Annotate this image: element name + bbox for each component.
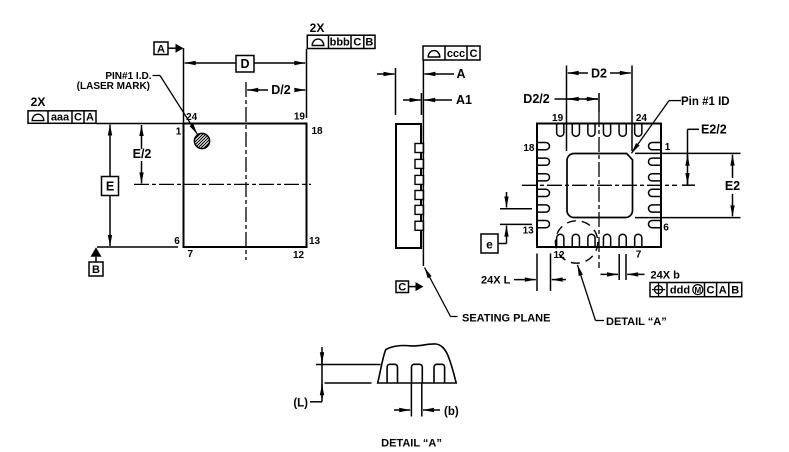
dimension (b) arrow right (423, 409, 440, 411)
dimension D right extension line (306, 49, 308, 118)
pin number 24 (bottom view) (636, 113, 648, 124)
fcf aaa symbol (32, 114, 44, 120)
svg-text:7: 7 (188, 249, 194, 260)
svg-text:E2/2: E2/2 (701, 123, 727, 137)
pin 1 laser mark (192, 122, 212, 160)
dimension b arrow left (601, 273, 619, 275)
pin number 13 (top view) (309, 236, 321, 247)
dimension L arrow left (514, 279, 536, 281)
svg-text:6: 6 (663, 222, 669, 233)
dimension A line right (424, 73, 454, 75)
datum A leader (168, 47, 176, 49)
dimension (L) arrow up (321, 384, 323, 398)
pin number 7 (bottom view) (636, 250, 642, 261)
pin #1 id leader (632, 101, 682, 154)
svg-text:bbb: bbb (330, 37, 350, 49)
pin number 18 (bottom view) (523, 143, 535, 154)
top view vertical centerline (245, 82, 247, 260)
top view horizontal centerline (134, 183, 311, 185)
fcf ddd position symbol (652, 283, 665, 296)
pin number 6 (top view) (174, 236, 180, 247)
svg-text:e: e (486, 238, 493, 252)
datum B box (89, 262, 103, 276)
dimension (b) arrow left (394, 409, 410, 411)
svg-text:2X: 2X (310, 21, 325, 35)
dimension D2 line right (610, 72, 631, 74)
svg-text:18: 18 (523, 143, 535, 154)
dimension D/2 label (271, 83, 291, 97)
bottom view left edge pins (537, 143, 550, 228)
fcf bbb frame (307, 35, 375, 48)
svg-text:Pin #1 ID: Pin #1 ID (681, 96, 730, 108)
fcf ccc text (447, 48, 465, 60)
seating plane label (462, 313, 550, 325)
dimension D left extension line (183, 48, 185, 123)
datum C box (396, 281, 409, 293)
dimension e pin centerline upper (500, 208, 532, 210)
svg-text:DETAIL “A”: DETAIL “A” (606, 316, 667, 328)
dimension (L) arrow down (321, 352, 323, 363)
dimension e arrow down (506, 192, 508, 208)
svg-text:C: C (470, 48, 478, 60)
svg-text:SEATING PLANE: SEATING PLANE (462, 313, 550, 325)
fcf aaa text (51, 112, 70, 124)
dimension E2/2 center tick (682, 184, 695, 186)
pin number 19 (top view) (294, 111, 306, 122)
dimension E line upper (109, 125, 111, 177)
dimension b extension line left (618, 254, 620, 280)
svg-text:1: 1 (665, 142, 671, 153)
fcf ccc frame (423, 46, 480, 60)
dimension E2/2 elbow (688, 129, 700, 185)
pin 1 id note (77, 71, 152, 92)
fcf ddd datum A (719, 285, 727, 297)
svg-text:A: A (719, 285, 727, 297)
center pad with pin1 chamfer (567, 154, 633, 218)
top edge extension line (96, 123, 184, 125)
svg-text:A: A (456, 67, 465, 81)
fcf ddd frame (650, 283, 742, 297)
side view body (396, 124, 421, 248)
svg-text:7: 7 (636, 250, 642, 261)
dimension (L) label (293, 397, 308, 409)
detail lead bottom reference line (325, 382, 372, 384)
dimension E2 top extension line (635, 152, 741, 154)
svg-text:C: C (707, 285, 715, 297)
dimension E2 label (725, 179, 740, 193)
datum A label (157, 43, 165, 55)
dimension D2/2 line (555, 98, 599, 100)
datum C leader (409, 286, 416, 288)
dimension (b) extension line right (421, 383, 423, 417)
detail view title (381, 437, 442, 449)
svg-text:12: 12 (553, 250, 565, 261)
svg-text:(L): (L) (293, 397, 308, 409)
svg-text:(LASER MARK): (LASER MARK) (77, 81, 150, 92)
dimension D label (240, 57, 249, 71)
dimension A1 extension line (420, 93, 422, 115)
dimension L label (481, 275, 511, 287)
dimension A1 line left (403, 99, 421, 101)
dimension e label (486, 238, 493, 252)
dimension D2/2 center tick (598, 93, 600, 112)
svg-text:19: 19 (552, 113, 564, 124)
fcf ddd text (670, 285, 690, 297)
svg-text:E/2: E/2 (133, 147, 152, 161)
pin number 1 (top view) (176, 126, 182, 137)
dimension D2/2 arrow left (568, 98, 580, 100)
side view terminals (415, 144, 424, 231)
dimension D line right (254, 62, 305, 64)
pin number 24 (top view) (186, 112, 198, 123)
detail A circle (555, 221, 597, 263)
dimension E2 arrow down (732, 194, 734, 216)
svg-text:C: C (398, 282, 406, 294)
svg-text:18: 18 (311, 126, 323, 137)
svg-text:DETAIL “A”: DETAIL “A” (381, 437, 442, 449)
svg-text:B: B (92, 264, 100, 276)
dimension E2/2 arrow up (687, 155, 689, 164)
dimension D/2 line left (247, 89, 268, 91)
top view package outline (184, 124, 307, 248)
fcf bbb datum B (365, 37, 373, 49)
svg-text:A: A (157, 43, 165, 55)
dimension D2 right extension line (631, 66, 633, 152)
dimension E/2 line lower (141, 161, 143, 183)
fcf ddd datum B (731, 285, 739, 297)
svg-text:M: M (694, 286, 701, 295)
svg-text:24X L: 24X L (481, 275, 511, 287)
dimension e box (481, 234, 498, 253)
dimension e pin centerline lower (500, 223, 532, 225)
svg-text:A1: A1 (456, 93, 472, 107)
bottom view horizontal centerline (522, 184, 677, 186)
fcf bbb text (330, 37, 350, 49)
datum A triangle (176, 44, 184, 53)
detail view leads (387, 364, 445, 383)
svg-text:6: 6 (174, 236, 180, 247)
datum C label (398, 282, 406, 294)
bottom view vertical centerline (598, 112, 600, 268)
dimension b label (651, 269, 681, 281)
dimension D2 left extension line (566, 66, 568, 152)
fcf ddd mmc symbol (693, 285, 703, 295)
dimension A line left (377, 73, 395, 75)
svg-text:D: D (240, 57, 249, 71)
dimension D box (236, 56, 254, 73)
pin 1 id leader (153, 76, 198, 135)
dimension (b) extension line left (410, 383, 412, 417)
svg-text:D2/2: D2/2 (523, 92, 549, 106)
datum B leader (95, 257, 97, 262)
fcf bbb symbol (312, 39, 324, 45)
svg-text:aaa: aaa (51, 112, 70, 124)
dimension (L) line (321, 347, 323, 402)
svg-text:13: 13 (309, 236, 321, 247)
svg-text:13: 13 (523, 225, 535, 236)
svg-text:(b): (b) (444, 406, 459, 418)
seating plane line (422, 60, 424, 266)
fcf ccc datum C (470, 48, 478, 60)
bottom edge extension line (97, 246, 178, 248)
fcf ccc symbol (428, 51, 440, 57)
svg-text:1: 1 (176, 126, 182, 137)
detail A callout (606, 316, 667, 328)
dimension L arrow right (552, 279, 566, 281)
svg-text:ddd: ddd (670, 285, 690, 297)
svg-text:24: 24 (636, 113, 648, 124)
bottom view top edge pins (557, 124, 642, 137)
dimension D2/2 label (523, 92, 549, 106)
fcf aaa datum A (86, 112, 94, 124)
detail lead top reference line (316, 364, 381, 366)
svg-text:B: B (731, 285, 739, 297)
fcf bbb datum C (353, 37, 361, 49)
2X label (aaa) (31, 95, 46, 109)
dimension E2/2 label (701, 123, 727, 137)
datum C triangle (416, 282, 424, 291)
datum A box (154, 42, 168, 55)
svg-text:D/2: D/2 (271, 83, 291, 97)
svg-text:D2: D2 (591, 66, 607, 80)
dimension (b) label (444, 406, 459, 418)
dimension A1 line right (424, 99, 452, 101)
svg-text:E2: E2 (725, 179, 740, 193)
seating plane leader (425, 268, 458, 317)
bottom view bottom edge pins (557, 234, 642, 247)
dimension D2/2 arrow right (585, 98, 598, 100)
svg-text:B: B (365, 37, 373, 49)
dimension A extension line (395, 68, 397, 115)
dimension E2 bottom extension line (635, 217, 741, 219)
svg-text:24: 24 (186, 112, 198, 123)
pin number 19 (bottom view) (552, 113, 564, 124)
svg-text:C: C (74, 112, 82, 124)
svg-text:A: A (86, 112, 94, 124)
svg-text:2X: 2X (31, 95, 46, 109)
datum B label (92, 264, 100, 276)
dimension L extension line left (536, 254, 538, 292)
dimension E box (102, 177, 119, 196)
2X label (bbb) (310, 21, 325, 35)
pin number 7 (top view) (188, 249, 194, 260)
pin number 1 (bottom view) (665, 142, 671, 153)
fcf aaa frame (28, 111, 96, 124)
dimension D line left (185, 62, 236, 64)
dimension D2 label (591, 66, 607, 80)
datum B triangle (91, 247, 102, 256)
dimension E label (106, 180, 114, 194)
svg-text:12: 12 (293, 250, 305, 261)
fcf ddd datum C (707, 285, 715, 297)
bottom view package outline (537, 124, 661, 248)
dimension E2/2 arrow down (687, 174, 689, 184)
dimension A label (456, 67, 465, 81)
dimension b arrow right (627, 273, 644, 275)
svg-text:E: E (106, 180, 114, 194)
pin number 6 (bottom view) (663, 222, 669, 233)
dimension E/2 line upper (141, 125, 143, 149)
pin number 12 (bottom view) (553, 250, 565, 261)
fcf aaa datum C (74, 112, 82, 124)
pin number 13 (bottom view) (523, 225, 535, 236)
svg-text:C: C (353, 37, 361, 49)
bottom view right edge pins (648, 143, 661, 228)
svg-text:19: 19 (294, 111, 306, 122)
dimension A1 label (456, 93, 472, 107)
svg-text:24X b: 24X b (651, 269, 681, 281)
dimension D/2 line right (295, 89, 305, 91)
dimension e arrow up (506, 226, 508, 240)
dimension b extension line right (625, 254, 627, 280)
dimension (L) connector (310, 401, 322, 403)
dimension E/2 label (133, 147, 152, 161)
pin #1 id label (681, 96, 730, 108)
pin number 12 (top view) (293, 250, 305, 261)
dimension D2 line left (568, 72, 588, 74)
detail A leader (577, 265, 604, 321)
dimension L extension line right (550, 254, 552, 292)
pin number 18 (top view) (311, 126, 323, 137)
dimension E line lower (109, 196, 111, 247)
detail view body outline (378, 344, 457, 383)
dimension E2 arrow up (732, 155, 734, 178)
svg-text:ccc: ccc (447, 48, 465, 60)
dimension e elbow (498, 240, 507, 244)
